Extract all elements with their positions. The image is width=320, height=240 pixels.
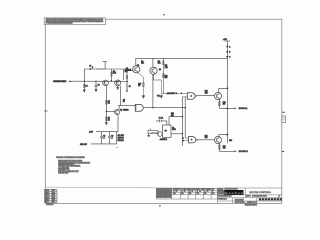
svg-text:7474: 7474: [172, 129, 176, 131]
transistor Q7: [115, 109, 129, 115]
svg-text:R9: R9: [158, 61, 160, 63]
svg-text:R7: R7: [108, 118, 110, 120]
svg-text:ALL RES: ALL RES: [118, 134, 124, 137]
svg-text:B REVISED PER ECO 1056: B REVISED PER ECO 1056: [157, 193, 172, 195]
node A: junction dot on feedback line: [90, 68, 92, 70]
svg-text:RESISTANCE VALUES IN OHMS: RESISTANCE VALUES IN OHMS: [58, 160, 82, 163]
output terminal MOTOR B: [234, 150, 248, 153]
gate U3B (NAND): [182, 137, 197, 143]
main rail y=58.3: [136, 57, 228, 59]
capacitor C2 (x=96 to ground): [95, 81, 100, 89]
svg-text:111: 111: [204, 193, 206, 195]
resistor R5 2.2K drop x=127: [125, 69, 128, 90]
svg-text:112: 112: [212, 193, 214, 195]
svg-text:SCALE NONE: SCALE NONE: [235, 198, 244, 201]
resistor R12 divider lower: [163, 74, 168, 80]
output terminal MOTOR A: [234, 107, 248, 110]
wire: Q2 collector drop to U1 input: [120, 86, 135, 106]
wire: Q1 emitter chain down x=106.3: [105, 86, 107, 116]
text block right of RC row: [118, 134, 125, 142]
svg-text:102: 102: [189, 193, 192, 195]
svg-text:ECO: ECO: [52, 197, 56, 199]
transistor Q4: [137, 65, 161, 74]
svg-text:R12: R12: [165, 75, 168, 77]
wire: U2 out right: [171, 133, 182, 135]
svg-text:.1: .1: [111, 137, 112, 139]
wire: U3B output to Q6 base: [197, 139, 214, 141]
svg-text:ECO: ECO: [52, 192, 56, 194]
capacitor C6: [108, 132, 113, 144]
svg-text:Q7: Q7: [120, 109, 122, 111]
svg-text:C2: C2: [98, 84, 100, 86]
capacitor C8 label: [123, 99, 125, 103]
capacitor C4 on U2: [156, 118, 167, 125]
svg-text:1K: 1K: [138, 85, 140, 87]
node: junction x182.4 y116.7: [182, 116, 183, 117]
wire: U3A output to Q5 base: [197, 95, 215, 97]
gate U1 (NAND): [135, 104, 143, 111]
resistor R14 10K label: [205, 91, 208, 95]
svg-text:4: 4: [159, 205, 161, 207]
svg-text:MOTOR A: MOTOR A: [239, 107, 248, 110]
wire: vertical x=185.2: [184, 97, 186, 138]
svg-text:A: A: [229, 45, 230, 48]
svg-text:ECO: ECO: [52, 195, 56, 197]
svg-text:1K: 1K: [108, 119, 110, 121]
svg-text:101: 101: [181, 193, 184, 195]
resistor R1 (x=84.3 to ground): [84, 81, 88, 89]
svg-text:C8: C8: [123, 99, 125, 101]
transistor Q5: [215, 93, 222, 100]
svg-text:UNLESS OTHERWISE SPECIFIED: UNLESS OTHERWISE SPECIFIED: [56, 157, 85, 159]
svg-text:-2: -2: [181, 191, 182, 193]
svg-text:-3: -3: [189, 191, 190, 193]
svg-text:-9: -9: [212, 191, 213, 193]
transistor Q6: [215, 137, 222, 144]
transistor Q2: [115, 80, 121, 86]
svg-text:R1: R1: [86, 86, 88, 88]
svg-text:REV B: REV B: [45, 192, 49, 194]
svg-text:10K: 10K: [158, 63, 161, 65]
wire: output A y=108.4: [219, 107, 234, 109]
svg-text:-7: -7: [204, 191, 205, 193]
svg-text:10K: 10K: [141, 63, 144, 65]
microfilm scale strip: [259, 198, 282, 200]
svg-text:03: 03: [192, 191, 194, 193]
svg-text:DRAWN: DRAWN: [218, 188, 223, 191]
capacitor C5: [100, 132, 105, 144]
svg-text:02: 02: [184, 191, 186, 193]
ground under R1: [83, 90, 85, 93]
title block small texts: [218, 188, 280, 207]
svg-text:CHECKED: CHECKED: [218, 191, 224, 193]
wire: U2 vcc y=116.7: [169, 117, 182, 125]
svg-text:2N2222: 2N2222: [123, 109, 128, 111]
svg-text:FORM 4570 REV B: FORM 4570 REV B: [245, 204, 257, 206]
wire: Q3 emitter chain to ground x=143.4: [137, 72, 143, 95]
ground under C2: [95, 89, 97, 92]
svg-text:D REVISED PER ECO 1092: D REVISED PER ECO 1092: [157, 196, 172, 198]
resistor R9 10K label (rail, right): [158, 61, 161, 65]
svg-text:FF: FF: [165, 131, 167, 133]
svg-text:10K: 10K: [165, 77, 168, 79]
wire: feedback top line y=69: [84, 69, 111, 81]
svg-text:10: 10: [123, 101, 125, 103]
svg-text:01: 01: [176, 191, 178, 193]
svg-text:ASSERT A: ASSERT A: [160, 138, 167, 141]
svg-text:FORM 102: FORM 102: [46, 204, 53, 206]
svg-text:SHEET 1 OF 1: SHEET 1 OF 1: [247, 202, 257, 204]
svg-text:Q4: Q4: [159, 69, 161, 71]
top edge center tick: [163, 14, 165, 16]
svg-text:GND 12V: GND 12V: [80, 144, 88, 146]
svg-text:-1: -1: [173, 191, 174, 193]
wire: Q6 collector to rail: [219, 135, 228, 137]
svg-text:MOTOR CONTROL: MOTOR CONTROL: [250, 192, 272, 194]
svg-text:.1: .1: [92, 67, 93, 69]
svg-text:REV F: REV F: [45, 201, 49, 203]
svg-text:05: 05: [199, 191, 201, 193]
node B junction dot rect/input: [111, 80, 113, 82]
svg-text:ECO: ECO: [52, 201, 56, 203]
svg-text:07: 07: [207, 191, 209, 193]
svg-text:ISSUED 10-4: ISSUED 10-4: [218, 199, 227, 201]
RC decoupling row: top line: [96, 131, 118, 133]
transistor Q3: [126, 66, 140, 73]
power rail vertical x=227.3 with +28V terminal: [223, 39, 230, 143]
wire: U1 output y=107.7: [144, 107, 186, 109]
svg-text:ECO: ECO: [52, 199, 56, 201]
power +12V tick at top of divider: [96, 62, 107, 69]
resistor R20 + transistor Q8 left of U2: [147, 129, 162, 138]
resistor R4 4.7K in loop rectangle: [111, 69, 124, 81]
rail tap labels: [229, 45, 231, 58]
svg-text:U2: U2: [172, 127, 174, 129]
node: junction x185.2 y107.7: [185, 107, 186, 108]
wire+gnd: stem x=161.3: [160, 80, 163, 98]
svg-text:1: 1: [279, 196, 280, 198]
svg-text:10K: 10K: [171, 115, 174, 117]
wire: Q4 emitter chain junction to gnd x=143? none. Q4 collector drop ground x=152.9 continues: [152, 74, 154, 108]
svg-text:ECO: ECO: [52, 190, 56, 192]
svg-text:+12V: +12V: [89, 131, 94, 133]
resistor R15 100 + node to MOTOR A: [219, 99, 226, 108]
svg-text:GenRad: GenRad: [225, 191, 243, 195]
svg-text:1K: 1K: [108, 103, 110, 105]
svg-text:-5: -5: [197, 191, 198, 193]
svg-text:C5: C5: [103, 136, 105, 138]
svg-text:C: C: [250, 196, 252, 198]
ground under R10: [142, 96, 145, 99]
svg-text:C3: C3: [129, 86, 131, 88]
svg-text:R17: R17: [223, 146, 226, 148]
wire: Q4 emitter y=80: [154, 74, 162, 80]
svg-text:110: 110: [197, 193, 199, 195]
wire: Q7 collector up to U1 input wire: [118, 106, 120, 110]
resistor R17 100 + node to MOTOR B: [219, 143, 226, 151]
svg-text:PCB NO 4570: PCB NO 4570: [58, 173, 68, 175]
resistor R8 10K label (rail, left): [141, 61, 144, 65]
wire: output B y=151.3: [219, 150, 234, 152]
svg-text:4570-0100: 4570-0100: [259, 196, 267, 198]
junction blob x=127 bottom: [126, 83, 131, 91]
resistor R11 4.7K divider upper: [163, 58, 168, 93]
resistor R7 lower + ground: [105, 116, 110, 125]
bottom edge center mark: [159, 203, 246, 207]
svg-text:10K: 10K: [205, 92, 208, 94]
svg-text:REF P/N 100 SEE DET LIST: REF P/N 100 SEE DET LIST: [58, 171, 78, 173]
wire: Q5 collector to rail: [219, 88, 228, 92]
svg-text:ASSERT B: ASSERT B: [167, 92, 177, 95]
node dot below RC: [116, 147, 117, 148]
svg-text:10K: 10K: [205, 137, 208, 139]
svg-text:REV D: REV D: [45, 197, 49, 199]
revision band top rule across sheet: [45, 187, 217, 188]
svg-text:4.7K: 4.7K: [165, 67, 168, 69]
svg-text:Q3: Q3: [126, 68, 128, 70]
wire: input net y=81.2: [72, 80, 127, 82]
svg-text:TP1: TP1: [157, 96, 160, 98]
svg-text:.1: .1: [103, 137, 104, 139]
resistor R6 1K upper: [106, 100, 110, 104]
node: divider to assert wire arrow: [157, 93, 164, 98]
svg-text:R18: R18: [229, 140, 232, 142]
svg-text:Q3: Q3: [137, 65, 139, 67]
border frame: [45, 19, 281, 203]
resistor R16 10K label: [205, 135, 208, 139]
gate U3A (NAND): [163, 92, 197, 99]
node dots on rail: [226, 46, 228, 110]
svg-text:100: 100: [223, 104, 226, 106]
wire: rail drop to Q4: [152, 58, 154, 67]
svg-text:4.7K: 4.7K: [113, 73, 116, 75]
svg-text:REV C: REV C: [45, 195, 49, 197]
IC U2 flip-flop box: [163, 125, 176, 137]
svg-text:R6: R6: [108, 101, 110, 103]
logo box (black): [224, 190, 244, 195]
svg-text:R15: R15: [223, 102, 226, 104]
svg-text:R11: R11: [165, 65, 168, 67]
svg-text:MOTOR B: MOTOR B: [239, 151, 249, 153]
svg-text:R8: R8: [141, 61, 143, 63]
svg-text:B: B: [229, 52, 230, 54]
wire: Q3 base from R5: [127, 70, 133, 72]
svg-text:R4: R4: [113, 71, 115, 73]
svg-text:100: 100: [223, 148, 226, 150]
input terminal CURRENT SENSE: [53, 81, 72, 84]
svg-text:UNLESS: UNLESS: [118, 140, 124, 142]
svg-text:CURRENT SENSE: CURRENT SENSE: [53, 81, 67, 83]
left edge center tick: [44, 110, 47, 112]
ground under Q2: [117, 86, 119, 90]
svg-text:R10: R10: [138, 83, 141, 85]
notice box: [44, 18, 105, 25]
node: C2 tap junction: [95, 81, 96, 82]
svg-text:C6: C6: [111, 136, 113, 138]
svg-text:C4 .01: C4 .01: [159, 118, 164, 120]
node: feedback tap junction: [84, 81, 85, 82]
wire: Q7 base wire y=111.4: [106, 110, 114, 112]
RC row bottom line: [91, 132, 117, 144]
svg-text:SIZE: SIZE: [246, 196, 249, 198]
svg-text:REV E: REV E: [45, 199, 49, 201]
transistor Q1: [103, 80, 109, 86]
resistor R19 10K label above: [171, 113, 174, 117]
svg-text:100: 100: [173, 193, 176, 195]
resistor R10: [138, 83, 144, 88]
wire: vertical x=182.4 (U2 net): [181, 97, 183, 146]
wire: rail drop to Q3: [135, 58, 137, 66]
svg-text:1/4W 5%: 1/4W 5%: [118, 138, 125, 140]
svg-text:C REVISED PER ECO 1077: C REVISED PER ECO 1077: [157, 195, 172, 197]
wire: Q7 emitter down to RC row: [117, 115, 119, 132]
right edge zone marker box: [282, 112, 286, 151]
svg-text:C: C: [229, 56, 231, 58]
svg-text:+28V: +28V: [223, 39, 228, 41]
